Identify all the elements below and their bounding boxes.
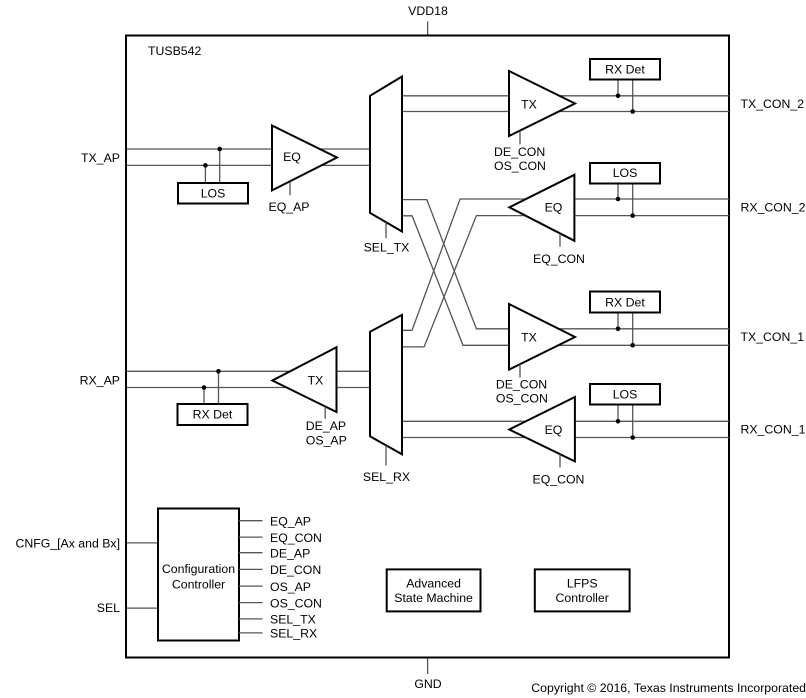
svg-text:SEL_TX: SEL_TX	[364, 241, 410, 255]
amp TX (TX_CON_2)	[509, 71, 575, 136]
pin VDD18 wire	[427, 22, 429, 35]
svg-text:DE_CON: DE_CON	[270, 563, 321, 577]
wire LOS2 stubs	[617, 183, 619, 199]
wire CNFG input	[127, 542, 158, 544]
wire EQ_CON stub	[559, 233, 561, 246]
svg-text:RX Det: RX Det	[193, 408, 233, 422]
block LOS (TX_AP)	[178, 183, 248, 204]
svg-text:DE_CON: DE_CON	[494, 145, 545, 159]
junction dot RX_CON_2-	[630, 213, 635, 218]
svg-text:TX_AP: TX_AP	[81, 151, 120, 165]
block RX Det (TX_CON_1)	[590, 292, 660, 313]
wire TX_AP pair to SEL_TX mux	[127, 148, 370, 150]
junction dot RX_AP-	[202, 385, 207, 390]
wire DE_AP/OS_AP stub	[324, 406, 326, 418]
svg-text:OS_CON: OS_CON	[496, 391, 548, 405]
wire EQ_AP control stub	[289, 182, 291, 196]
svg-text:EQ_CON: EQ_CON	[533, 252, 585, 266]
junction dot RX_CON_2+	[616, 197, 621, 202]
amp TX (RX_AP)	[272, 347, 336, 412]
wire RX Det 2 stubs	[218, 371, 220, 404]
svg-text:TX: TX	[521, 331, 537, 345]
svg-text:EQ: EQ	[545, 423, 563, 437]
svg-text:RX Det: RX Det	[605, 63, 645, 77]
junction dot TX_CON_1-	[630, 343, 635, 348]
svg-text:TUSB542: TUSB542	[148, 44, 201, 58]
svg-text:TX_CON_1: TX_CON_1	[741, 330, 805, 344]
wire SEL_TX to TX1 pair	[402, 95, 729, 97]
svg-text:DE_CON: DE_CON	[496, 377, 547, 391]
mux SEL_TX	[370, 77, 402, 232]
svg-text:EQ_CON: EQ_CON	[533, 473, 585, 487]
svg-text:DE_AP: DE_AP	[270, 546, 310, 560]
wire EQ_CON stub	[559, 454, 561, 467]
svg-text:EQ: EQ	[545, 201, 563, 215]
wire LOS3 stubs	[617, 404, 619, 421]
wire RX Det 3 stubs	[617, 313, 619, 329]
block Advanced State Machine	[387, 569, 481, 611]
junction dot TX_CON_2+	[616, 94, 621, 99]
labels config outputs	[270, 514, 322, 640]
chip outline TUSB542	[126, 36, 729, 658]
svg-text:OS_AP: OS_AP	[270, 580, 311, 594]
wire crossover SEL_TX to TX2 (down-right)	[402, 200, 729, 329]
svg-text:TX: TX	[308, 373, 324, 387]
svg-text:VDD18: VDD18	[408, 4, 448, 18]
svg-text:Controller: Controller	[556, 591, 609, 605]
svg-text:SEL: SEL	[97, 601, 120, 615]
svg-text:EQ_AP: EQ_AP	[269, 200, 310, 214]
svg-text:OS_CON: OS_CON	[494, 159, 546, 173]
block LFPS Controller	[535, 569, 630, 611]
wire DE/OS control stub	[519, 364, 521, 378]
svg-text:Configuration: Configuration	[162, 562, 235, 576]
block RX Det (TX_CON_2)	[590, 59, 660, 80]
junction dot RX_CON_1+	[616, 419, 621, 424]
svg-text:EQ_CON: EQ_CON	[270, 531, 322, 545]
amp TX (TX_CON_1)	[509, 304, 575, 370]
svg-text:TX_CON_2: TX_CON_2	[741, 97, 805, 111]
amp EQ (TX_AP)	[272, 126, 337, 191]
svg-text:RX_CON_1: RX_CON_1	[741, 423, 806, 437]
mux SEL_RX	[370, 315, 402, 454]
wire SEL_RX to EQ3 pair	[402, 420, 729, 422]
svg-text:RX_CON_2: RX_CON_2	[741, 201, 806, 215]
block Configuration Controller	[158, 509, 239, 641]
block RX Det (RX_AP)	[178, 404, 248, 425]
svg-text:LFPS: LFPS	[567, 577, 598, 591]
svg-text:OS_CON: OS_CON	[270, 596, 322, 610]
junction dot on TX_AP-	[203, 163, 208, 168]
svg-text:SEL_RX: SEL_RX	[363, 470, 410, 484]
svg-text:Copyright © 2016, Texas Instru: Copyright © 2016, Texas Instruments Inco…	[531, 681, 806, 695]
wire LOS1 stubs	[219, 149, 221, 183]
junction dot TX_CON_2-	[630, 109, 635, 114]
wire SEL_RX control stub	[385, 445, 387, 465]
wire SEL_TX control stub	[385, 222, 387, 238]
wire RX_AP pair from TX2	[127, 370, 370, 372]
block LOS (RX_CON_1)	[590, 384, 660, 405]
wire config output stubs	[239, 521, 263, 633]
svg-text:OS_AP: OS_AP	[306, 433, 347, 447]
amp EQ (RX_CON_1)	[509, 397, 575, 461]
svg-text:CNFG_[Ax and Bx]: CNFG_[Ax and Bx]	[15, 537, 120, 551]
junction dot RX_AP+	[216, 369, 221, 374]
wire crossover EQ2 output to SEL_RX (down-left)	[402, 199, 729, 330]
block LOS (RX_CON_2)	[590, 163, 660, 184]
svg-text:RX Det: RX Det	[605, 295, 645, 309]
svg-text:State Machine: State Machine	[394, 591, 473, 605]
svg-text:LOS: LOS	[201, 187, 226, 201]
wire RX Det 1 stubs	[617, 80, 619, 96]
pin GND wire	[427, 659, 429, 675]
svg-text:EQ_AP: EQ_AP	[270, 514, 311, 528]
junction dot RX_CON_1-	[630, 435, 635, 440]
svg-text:LOS: LOS	[613, 387, 638, 401]
wire SEL input	[127, 607, 158, 609]
svg-text:SEL_RX: SEL_RX	[270, 627, 317, 641]
wire DE/OS control stub	[519, 131, 521, 145]
svg-text:DE_AP: DE_AP	[306, 419, 346, 433]
amp EQ (RX_CON_2)	[509, 175, 574, 241]
svg-text:SEL_TX: SEL_TX	[270, 613, 316, 627]
svg-text:GND: GND	[414, 677, 441, 691]
junction dot TX_CON_1+	[616, 327, 621, 332]
svg-text:LOS: LOS	[613, 166, 638, 180]
svg-text:Controller: Controller	[172, 578, 225, 592]
svg-text:TX: TX	[521, 97, 537, 111]
svg-text:RX_AP: RX_AP	[80, 374, 120, 388]
svg-text:EQ: EQ	[283, 150, 301, 164]
svg-text:Advanced: Advanced	[406, 577, 461, 591]
junction dot on TX_AP+	[217, 147, 222, 152]
